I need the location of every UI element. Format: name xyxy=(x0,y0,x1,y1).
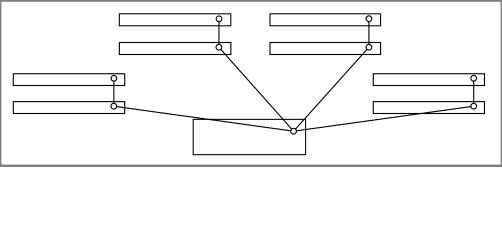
block D2 (mid-right lower) xyxy=(373,102,484,114)
wire A2-E xyxy=(219,47,294,131)
wire B2-E xyxy=(294,47,369,131)
wire A1-A2 xyxy=(218,19,220,47)
block A2 (top-left lower) xyxy=(119,43,231,55)
block B1 (top-right upper) xyxy=(270,14,381,26)
wire C2-E xyxy=(114,106,294,131)
wire B1-B2 xyxy=(368,19,370,48)
node A1 port xyxy=(216,16,222,22)
node C1 port xyxy=(111,75,117,81)
node C2 port xyxy=(111,103,117,109)
block E (bottom center) xyxy=(193,119,305,154)
block C1 (mid-left upper) xyxy=(13,74,124,86)
block D1 (mid-right upper) xyxy=(373,74,484,86)
block A1 (top-left upper) xyxy=(119,14,231,26)
node B2 port xyxy=(366,44,372,50)
border frame (decorative) xyxy=(0,0,502,2)
block B2 (top-right lower) xyxy=(270,43,381,55)
node A2 port xyxy=(216,44,222,50)
node B1 port xyxy=(366,16,372,22)
block C2 (mid-left lower) xyxy=(13,102,124,114)
node D1 port xyxy=(471,75,477,81)
wire D2-E xyxy=(294,106,474,131)
wire C1-C2 xyxy=(113,78,115,106)
node E port (junction) xyxy=(291,128,297,134)
node D2 port xyxy=(471,103,477,109)
wire D1-D2 xyxy=(473,78,475,106)
